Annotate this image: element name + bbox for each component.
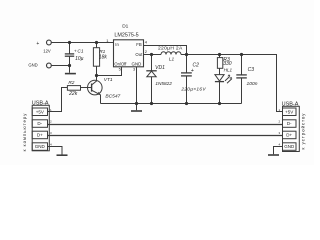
svg-text:18k: 18k — [99, 54, 108, 60]
svg-text:GND: GND — [35, 144, 46, 149]
wire left USB GND — [48, 147, 63, 155]
svg-text:10µ: 10µ — [75, 56, 84, 62]
capacitor C1 — [65, 43, 74, 73]
svg-text:к компьютеру: к компьютеру — [22, 113, 27, 152]
terminal +12V input — [47, 40, 52, 45]
wire Out from IC — [144, 54, 162, 56]
svg-text:к устройству: к устройству — [300, 113, 305, 150]
transistor VT1 base bar — [91, 84, 93, 92]
junction dots — [68, 41, 243, 105]
svg-text:GND: GND — [284, 144, 295, 149]
svg-text:330: 330 — [223, 61, 232, 67]
capacitor C3 — [236, 55, 247, 104]
svg-text:USB-A: USB-A — [282, 102, 299, 108]
svg-text:220µH 2A: 220µH 2A — [158, 45, 183, 51]
ground under right USB — [268, 154, 279, 156]
svg-text:GND: GND — [28, 62, 37, 67]
inductor L1 coil — [161, 52, 181, 55]
svg-text:FB: FB — [136, 42, 142, 47]
wire base from R2 — [81, 87, 92, 89]
svg-text:C1: C1 — [77, 48, 83, 54]
svg-text:C3: C3 — [248, 67, 255, 73]
svg-text:D-: D- — [37, 121, 42, 126]
IC U1 LM2575-5 box — [114, 40, 144, 67]
wire +12V rail — [51, 42, 113, 44]
svg-text:HL1: HL1 — [224, 68, 233, 73]
svg-text:1N5822: 1N5822 — [155, 81, 172, 86]
transistor VT1 collector — [92, 76, 97, 86]
wire GND input — [51, 65, 69, 67]
wire output rail — [181, 55, 283, 112]
right USB-A connector box — [283, 106, 300, 151]
svg-text:BC547: BC547 — [105, 93, 120, 99]
left USB-A connector box — [32, 105, 49, 151]
resistor R1 — [93, 43, 99, 76]
svg-text:D1: D1 — [122, 24, 128, 30]
wire D+ line — [48, 135, 283, 137]
svg-text:VT1: VT1 — [104, 77, 113, 83]
resistor R2 — [67, 86, 80, 91]
capacitor C2 — [181, 55, 192, 104]
wire FB feedback — [144, 46, 187, 55]
svg-text:R2: R2 — [68, 80, 74, 86]
wire D- line — [48, 124, 283, 126]
svg-text:In: In — [115, 42, 119, 47]
ground under C1 — [65, 73, 76, 75]
IC pin texts — [106, 38, 148, 72]
LED HL1 arrows — [225, 74, 232, 83]
wire collector to On/Off pin 5 — [97, 67, 122, 76]
svg-text:L1: L1 — [169, 57, 175, 63]
terminal GND input — [47, 63, 52, 68]
wire IC pin3 GND to ground rail — [136, 67, 138, 104]
svg-text:220µ×16V: 220µ×16V — [180, 87, 206, 93]
svg-text:D+: D+ — [286, 133, 292, 138]
svg-text:+: + — [36, 41, 39, 47]
transistor VT1 emitter — [92, 90, 101, 103]
diode VD1 — [146, 55, 156, 104]
ground rail — [101, 103, 242, 105]
svg-text:+5V: +5V — [36, 109, 44, 114]
svg-text:+5V: +5V — [285, 109, 293, 114]
wire right USB GND — [274, 147, 283, 155]
left USB pin cells — [32, 108, 47, 150]
right USB pin cells — [283, 108, 297, 150]
LED HL1 — [215, 75, 224, 104]
transistor VT1 circle — [88, 80, 103, 95]
svg-text:D-: D- — [287, 121, 292, 126]
svg-text:12V: 12V — [43, 49, 51, 54]
svg-text:Out: Out — [135, 52, 143, 57]
svg-text:LM2575-5: LM2575-5 — [114, 32, 138, 38]
svg-text:D+: D+ — [37, 133, 43, 138]
ground under left USB — [57, 154, 68, 156]
svg-text:On/Off: On/Off — [114, 61, 127, 66]
svg-text:22k: 22k — [68, 91, 78, 97]
USB pin names — [35, 109, 295, 149]
resistor R3 — [217, 55, 222, 75]
tiny pin numbers USB — [50, 108, 281, 147]
svg-text:100n: 100n — [247, 81, 258, 87]
transistor VT1 emitter arrow — [97, 92, 101, 95]
ground under pin3 — [131, 110, 142, 112]
svg-text:VD1: VD1 — [155, 65, 165, 71]
svg-text:USB-A: USB-A — [32, 101, 49, 107]
svg-text:+: + — [191, 68, 194, 74]
wire R2 to USB +5V — [48, 88, 68, 112]
